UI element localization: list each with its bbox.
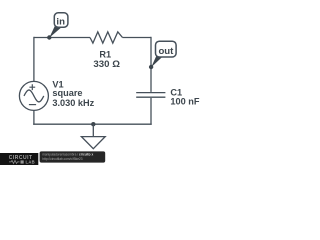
ground junction dot [91,122,95,126]
ground symbol [81,137,105,149]
svg-text:R1: R1 [99,49,111,59]
svg-text:http://circuitlab.com/c/f5ke23: http://circuitlab.com/c/f5ke23 [42,157,83,161]
svg-text:LAB: LAB [26,160,36,165]
wire bottom [33,123,152,125]
watermark logo block glyph [21,160,24,163]
capacitor C1 [136,93,165,98]
wire top-left segment [34,37,90,39]
svg-text:out: out [158,46,174,57]
svg-text:330 Ω: 330 Ω [93,59,120,69]
voltage source V1 [19,81,48,110]
resistor R1 [90,32,123,43]
in node dot [47,35,51,39]
svg-text:square: square [52,88,82,98]
svg-text:100 nF: 100 nF [170,96,199,106]
V1 minus sign [29,104,36,106]
watermark info box [40,151,106,162]
svg-text:3.030 kHz: 3.030 kHz [52,98,94,108]
in flag tail [49,26,61,38]
out flag tail [151,55,162,67]
svg-text:in: in [56,17,65,28]
out node dot [149,65,153,69]
V1 plus sign [29,84,35,90]
wire resistor to top-right corner [123,37,152,39]
watermark logo zigzag glyph [9,160,20,163]
ground stub [92,124,94,136]
wire left vertical above V1 [33,37,35,82]
svg-text:manipuladorenlasombra / circui: manipuladorenlasombra / circuito x [42,153,93,157]
watermark logo block [0,153,38,165]
in flag box [54,13,68,27]
wire below capacitor [150,98,152,125]
out flag box [156,41,177,57]
wire right vertical to capacitor [150,37,152,92]
wire left vertical below V1 [33,110,35,125]
